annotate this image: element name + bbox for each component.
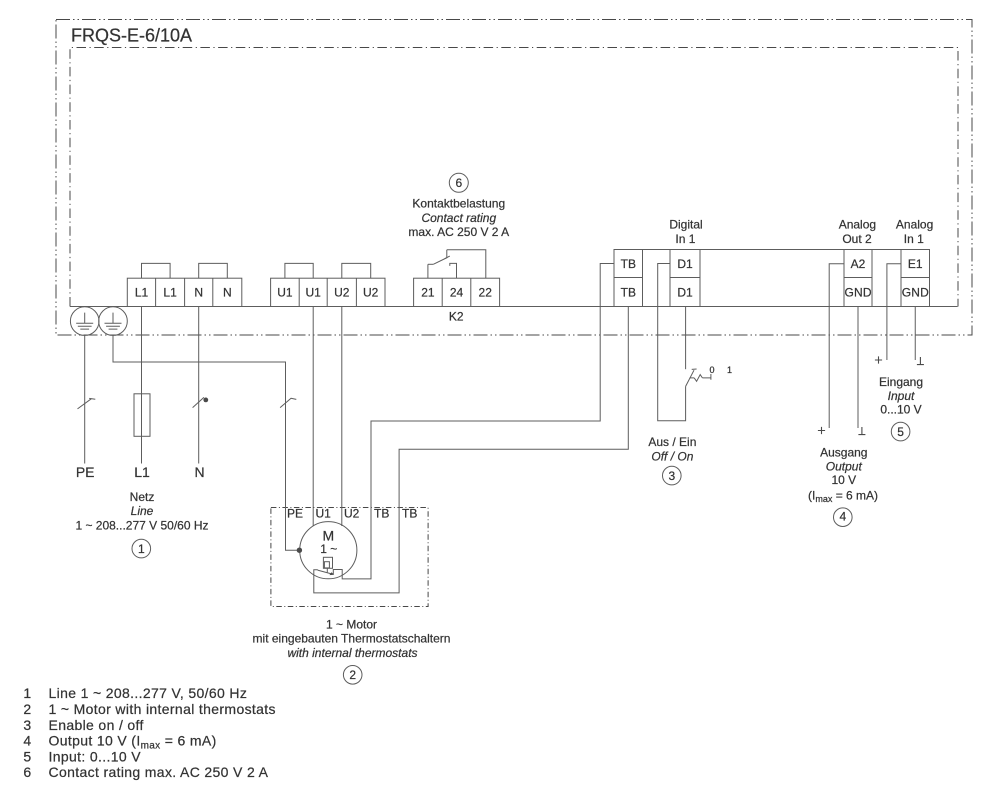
svg-text:E1: E1 — [908, 257, 923, 271]
svg-text:Line: Line — [131, 504, 154, 518]
svg-text:Output: Output — [826, 459, 863, 473]
svg-text:Netz: Netz — [130, 490, 155, 504]
svg-text:In 1: In 1 — [904, 232, 924, 246]
svg-text:1: 1 — [727, 365, 732, 375]
svg-text:with internal thermostats: with internal thermostats — [287, 646, 417, 660]
svg-text:L1: L1 — [163, 285, 177, 299]
svg-text:3: 3 — [23, 717, 31, 733]
svg-text:max. AC 250 V 2 A: max. AC 250 V 2 A — [408, 225, 509, 239]
svg-text:N: N — [223, 285, 232, 299]
svg-text:1 ~: 1 ~ — [320, 542, 337, 556]
svg-text:Input: 0...10 V: Input: 0...10 V — [49, 748, 142, 764]
svg-text:U1: U1 — [277, 285, 293, 299]
svg-text:Line 1 ~ 208...277 V, 50/60 Hz: Line 1 ~ 208...277 V, 50/60 Hz — [49, 685, 248, 701]
svg-text:TB: TB — [621, 285, 636, 299]
svg-text:GND: GND — [845, 285, 872, 299]
svg-text:Enable on / off: Enable on / off — [49, 717, 144, 733]
svg-text:Contact rating: Contact rating — [421, 211, 496, 225]
svg-text:U2: U2 — [344, 507, 360, 521]
svg-text:FRQS-E-6/10A: FRQS-E-6/10A — [71, 25, 192, 45]
svg-text:Contact rating max. AC 250 V 2: Contact rating max. AC 250 V 2 A — [49, 764, 269, 780]
svg-text:Input: Input — [888, 389, 915, 403]
svg-text:2: 2 — [23, 701, 31, 717]
svg-text:Analog: Analog — [839, 218, 876, 232]
svg-text:Kontaktbelastung: Kontaktbelastung — [412, 197, 505, 211]
svg-text:N: N — [194, 285, 203, 299]
svg-text:U2: U2 — [363, 285, 379, 299]
svg-text:2: 2 — [349, 668, 356, 682]
svg-text:5: 5 — [897, 425, 904, 439]
svg-text:5: 5 — [23, 748, 31, 764]
svg-text:1: 1 — [23, 685, 31, 701]
svg-text:4: 4 — [23, 733, 31, 749]
svg-text:22: 22 — [479, 285, 493, 299]
svg-text:1: 1 — [138, 542, 145, 556]
svg-text:TB: TB — [374, 507, 389, 521]
svg-text:Eingang: Eingang — [879, 375, 923, 389]
svg-text:1 ~ Motor with internal thermo: 1 ~ Motor with internal thermostats — [49, 701, 276, 717]
svg-text:3: 3 — [668, 469, 675, 483]
svg-text:N: N — [194, 464, 204, 480]
svg-text:TB: TB — [621, 257, 636, 271]
svg-text:D1: D1 — [677, 285, 693, 299]
svg-text:L1: L1 — [135, 285, 149, 299]
svg-text:D1: D1 — [677, 257, 693, 271]
svg-text:1 ~ Motor: 1 ~ Motor — [326, 617, 377, 631]
svg-text:U1: U1 — [306, 285, 322, 299]
svg-text:PE: PE — [76, 464, 95, 480]
svg-text:In 1: In 1 — [675, 232, 695, 246]
svg-text:GND: GND — [902, 285, 929, 299]
svg-text:24: 24 — [450, 285, 464, 299]
svg-text:Ausgang: Ausgang — [820, 446, 867, 460]
svg-text:21: 21 — [421, 285, 435, 299]
svg-text:Digital: Digital — [669, 218, 702, 232]
svg-text:4: 4 — [839, 510, 846, 524]
svg-text:PE: PE — [287, 507, 303, 521]
svg-text:Aus / Ein: Aus / Ein — [648, 435, 696, 449]
svg-text:1 ~ 208...277 V 50/60 Hz: 1 ~ 208...277 V 50/60 Hz — [75, 518, 208, 532]
svg-text:A2: A2 — [851, 257, 866, 271]
svg-text:6: 6 — [23, 764, 31, 780]
svg-text:U1: U1 — [316, 507, 332, 521]
svg-text:mit eingebauten Thermostatscha: mit eingebauten Thermostatschaltern — [253, 632, 451, 646]
svg-text:L1: L1 — [134, 464, 150, 480]
svg-text:0...10 V: 0...10 V — [880, 403, 921, 417]
svg-text:Out 2: Out 2 — [842, 232, 872, 246]
svg-text:K2: K2 — [449, 309, 464, 323]
svg-text:Off / On: Off / On — [651, 450, 693, 464]
svg-text:10 V: 10 V — [831, 473, 856, 487]
svg-text:TB: TB — [402, 507, 417, 521]
svg-text:0: 0 — [709, 365, 714, 375]
svg-text:6: 6 — [455, 176, 462, 190]
svg-text:U2: U2 — [334, 285, 350, 299]
svg-text:Analog: Analog — [896, 218, 933, 232]
